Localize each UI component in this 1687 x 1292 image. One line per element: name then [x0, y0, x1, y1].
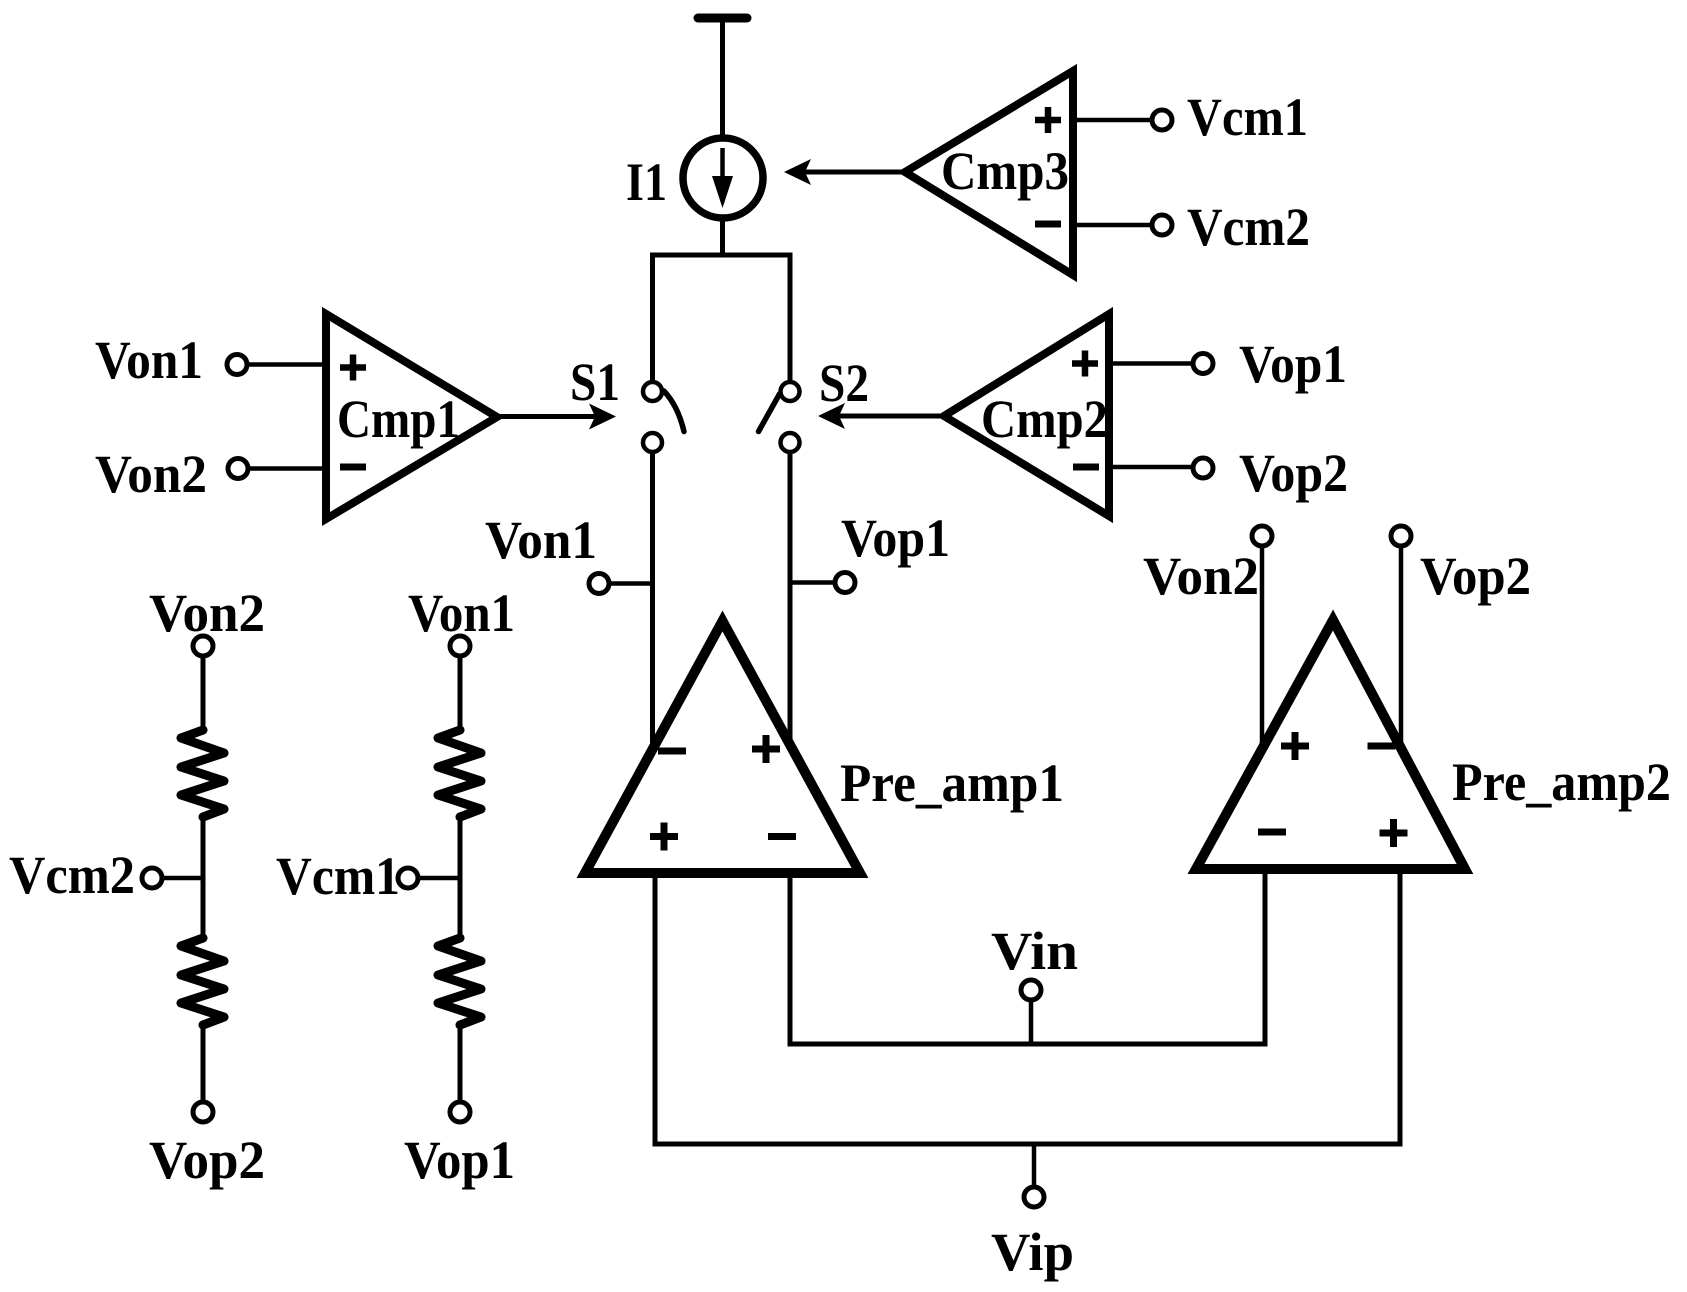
wire Pre_amp1 - output down	[788, 873, 793, 1047]
svg-text:S1: S1	[570, 352, 620, 412]
node Vop2 (divider1 bottom)	[149, 1102, 265, 1190]
wire divider2 middle	[458, 815, 463, 940]
power rail	[698, 14, 747, 23]
wire divider1 bottom	[201, 1023, 206, 1101]
svg-text:Cmp1: Cmp1	[337, 389, 460, 449]
svg-text:Vin: Vin	[991, 921, 1078, 981]
wire Vip net horizontal	[653, 1142, 1403, 1147]
svg-text:Vcm2: Vcm2	[1187, 197, 1310, 257]
wire Cmp2 output arrow	[818, 403, 944, 429]
wire Pre_amp1 + output down	[653, 873, 658, 1147]
wire Pre_amp2 + output down	[1398, 869, 1403, 1147]
svg-text:Vcm1: Vcm1	[1187, 87, 1308, 147]
comparator Cmp1	[326, 314, 497, 519]
wire Vin net horizontal	[788, 1042, 1268, 1047]
node Vop2 (Cmp2 -)	[1109, 443, 1348, 503]
node Vcm1 (Cmp3 +)	[1073, 87, 1308, 147]
svg-text:Vip: Vip	[991, 1222, 1074, 1282]
svg-text:Von2: Von2	[95, 444, 207, 504]
svg-text:Von1: Von1	[95, 330, 203, 390]
wire split horizontal	[650, 253, 790, 258]
current source I1	[683, 138, 763, 218]
node Von2 pin of Pre_amp2	[1143, 526, 1272, 749]
svg-text:Cmp2: Cmp2	[981, 389, 1108, 449]
node Von1 tap	[485, 510, 653, 594]
node Vip	[991, 1144, 1074, 1282]
wire right branch to S2	[788, 253, 793, 382]
svg-text:Vop2: Vop2	[1239, 443, 1348, 503]
node Vcm2 tap	[9, 845, 203, 905]
node Vop1 (Cmp2 +)	[1109, 334, 1347, 394]
svg-text:Vop1: Vop1	[1239, 334, 1347, 394]
comparator Cmp3	[905, 71, 1073, 275]
svg-text:Vcm2: Vcm2	[9, 845, 135, 905]
comparator Cmp2	[944, 314, 1109, 516]
svg-text:Von2: Von2	[1143, 546, 1259, 606]
op-amp Pre_amp2	[1196, 620, 1465, 869]
svg-text:Vop1: Vop1	[404, 1130, 515, 1190]
wire S2 to Pre_amp1 plus	[788, 453, 793, 749]
svg-text:Von1: Von1	[485, 510, 597, 570]
svg-text:Von2: Von2	[149, 583, 265, 643]
node Vcm2 (Cmp3 -)	[1073, 197, 1310, 257]
node Vop1 (divider2 bottom)	[404, 1102, 515, 1190]
svg-text:Vop1: Vop1	[841, 508, 950, 568]
node Vcm1 tap	[276, 846, 460, 906]
wire rail to I1	[720, 19, 725, 140]
wire Pre_amp2 - output down	[1263, 869, 1268, 1047]
svg-text:Vop2: Vop2	[149, 1130, 265, 1190]
resistor divider2 upper	[438, 730, 481, 817]
node Vop2 pin of Pre_amp2	[1391, 526, 1531, 748]
node Von2 input	[95, 444, 326, 504]
switch S2	[759, 382, 800, 452]
svg-text:Pre_amp2: Pre_amp2	[1452, 752, 1671, 812]
wire divider2 top	[458, 657, 463, 732]
svg-text:Vop2: Vop2	[1420, 546, 1531, 606]
resistor divider1 upper	[181, 730, 224, 817]
svg-text:Pre_amp1: Pre_amp1	[840, 753, 1064, 813]
wire divider2 bottom	[458, 1023, 463, 1101]
wire divider1 top	[201, 657, 206, 732]
wire left branch to S1	[650, 253, 655, 382]
wire divider1 middle	[201, 815, 206, 940]
node Von1 input	[95, 330, 326, 390]
node Von2 (divider 1 top)	[149, 583, 265, 656]
resistor divider2 lower	[438, 938, 481, 1025]
svg-text:Vcm1: Vcm1	[276, 846, 400, 906]
svg-text:I1: I1	[626, 152, 667, 212]
op-amp Pre_amp1	[585, 621, 860, 873]
node Vop1 tap	[790, 508, 950, 593]
resistor divider1 lower	[181, 938, 224, 1025]
wire I1 to split node	[720, 217, 725, 255]
node Vin	[991, 921, 1078, 1044]
wire Cmp1 output arrow	[497, 404, 616, 430]
svg-text:Cmp3: Cmp3	[941, 141, 1069, 201]
wire S1 to Pre_amp1 minus	[650, 453, 655, 749]
wire Cmp3 output arrow	[784, 159, 905, 185]
switch S1	[643, 382, 684, 452]
node Von1 (divider 2 top)	[408, 583, 515, 656]
